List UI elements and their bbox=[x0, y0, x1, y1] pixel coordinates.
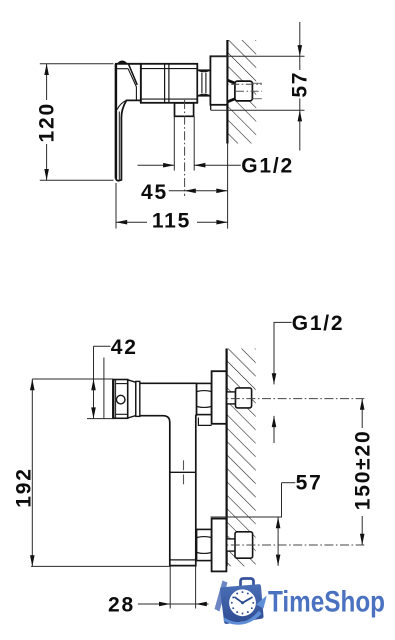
svg-text:150±20: 150±20 bbox=[352, 430, 375, 511]
handle top seam bbox=[116, 68, 128, 70]
upper union socket stub bbox=[227, 392, 236, 404]
dimension 192 bbox=[31, 379, 170, 566]
socket center line (eccentric) bbox=[236, 90, 262, 92]
svg-text:57: 57 bbox=[296, 471, 323, 494]
dimension 57 (top) bbox=[211, 22, 305, 151]
dimension 45 bbox=[169, 190, 228, 192]
body (front view) bbox=[170, 415, 196, 566]
G1/2 callout (bottom) bbox=[274, 322, 292, 443]
handle neck diagonal B bbox=[128, 69, 136, 100]
body center tick bbox=[183, 460, 185, 470]
wall flange escutcheon (top view) bbox=[210, 56, 227, 105]
lower hex nut (front view) bbox=[197, 529, 212, 560]
wall socket recess white-out bbox=[228, 80, 235, 102]
upper hex nut (front view) bbox=[197, 383, 212, 414]
lever knob grip (front view) bbox=[113, 380, 128, 419]
handle thick front edge bbox=[115, 64, 118, 179]
body left face bbox=[140, 64, 142, 103]
svg-text:120: 120 bbox=[36, 102, 59, 142]
lower flange escutcheon bbox=[212, 519, 227, 572]
faucet body (top view) bbox=[141, 64, 198, 103]
socket phantom lines bbox=[252, 82, 261, 84]
swoosh arrow bbox=[224, 611, 262, 625]
clock hands bbox=[243, 598, 251, 603]
handle neck diagonal A bbox=[129, 65, 138, 85]
svg-text:G1/2: G1/2 bbox=[241, 155, 294, 178]
clock ticks bbox=[231, 591, 254, 614]
arm (front view) bbox=[140, 383, 197, 422]
knob hole bbox=[116, 395, 125, 404]
G1/2 callout (top) bbox=[138, 100, 241, 196]
body groove lines bbox=[164, 64, 166, 103]
wall face line (bottom view) bbox=[226, 349, 228, 567]
body bottom seam bbox=[141, 98, 198, 100]
wall socket body bbox=[235, 81, 253, 101]
dimension 120 bbox=[40, 64, 114, 180]
handle dome cap bbox=[117, 61, 128, 64]
upper flange escutcheon bbox=[212, 371, 227, 424]
body top seam bbox=[141, 68, 198, 70]
ribbon bbox=[215, 581, 228, 612]
wall face line (top view) bbox=[226, 40, 228, 144]
socket wedge bottom bbox=[228, 99, 236, 102]
step under upper nut bbox=[198, 418, 211, 426]
svg-text:115: 115 bbox=[152, 210, 191, 233]
clock face bbox=[229, 589, 256, 616]
wall hatch (top view) bbox=[227, 40, 256, 144]
dimension 115 bbox=[116, 183, 228, 229]
svg-text:TimeShop: TimeShop bbox=[268, 586, 385, 619]
dimension 57 (bottom) bbox=[211, 483, 296, 566]
handle inner seam bbox=[118, 112, 120, 180]
svg-text:28: 28 bbox=[108, 593, 135, 616]
svg-text:45: 45 bbox=[141, 181, 168, 204]
dimension 28 bbox=[138, 566, 209, 608]
lower union socket bbox=[235, 532, 253, 558]
dimension 150±20 bbox=[361, 399, 363, 545]
body seam middle bbox=[170, 471, 196, 473]
hex nut (top view) bbox=[197, 70, 210, 96]
knob cone bbox=[128, 380, 136, 418]
socket wedge top bbox=[228, 80, 236, 83]
lever handle (top view) bbox=[116, 64, 141, 181]
handle bend seam bbox=[117, 100, 126, 109]
lower union socket stub bbox=[227, 539, 236, 551]
bag handle bbox=[241, 579, 254, 589]
body bottom seam bbox=[170, 559, 196, 561]
svg-text:192: 192 bbox=[13, 467, 36, 507]
svg-text:42: 42 bbox=[111, 336, 138, 359]
dimension 42 bbox=[87, 346, 113, 418]
wall hatch (bottom view) bbox=[227, 349, 256, 567]
knob ring bbox=[136, 381, 140, 416]
upper fitting center line bbox=[200, 398, 365, 400]
lower fitting center line bbox=[200, 544, 365, 546]
main center line (top fitting) bbox=[202, 83, 262, 85]
outlet collar (top view) bbox=[175, 103, 194, 116]
upper union socket bbox=[236, 388, 252, 408]
svg-text:G1/2: G1/2 bbox=[292, 312, 345, 335]
flange step bbox=[210, 105, 212, 110]
svg-text:57: 57 bbox=[289, 71, 312, 98]
